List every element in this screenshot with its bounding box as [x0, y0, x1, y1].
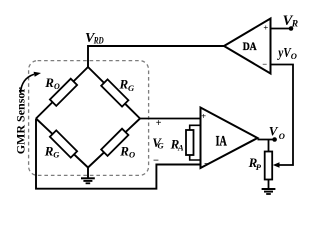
- svg-text:G: G: [158, 141, 165, 151]
- wire: DA - input feedback from potentiometer wiper: [271, 65, 294, 166]
- svg-text:R: R: [44, 144, 54, 159]
- svg-text:P: P: [256, 162, 262, 172]
- wire: bridge bottom to ground: [87, 168, 89, 179]
- wire: bridge top-right edge: [88, 67, 140, 119]
- node label V_RD: [85, 31, 104, 46]
- resistor R_O (bridge bottom-right): [101, 129, 128, 156]
- svg-text:A: A: [177, 143, 184, 153]
- pin + of DA: [263, 22, 268, 32]
- op-amp DA (differential amplifier, points left): [224, 19, 271, 74]
- wire: bridge right node to IA + input: [140, 118, 201, 120]
- potentiometer R_P: [265, 140, 273, 189]
- svg-text:O: O: [291, 51, 297, 61]
- svg-text:O: O: [129, 150, 135, 160]
- resistor R_G (bridge top-right): [101, 79, 128, 106]
- svg-text:+: +: [201, 111, 206, 121]
- resistor R_G (bridge bottom-left): [50, 130, 77, 157]
- node V_O terminal dot: [272, 137, 277, 142]
- label R_P: [248, 155, 262, 172]
- svg-text:R: R: [119, 77, 129, 92]
- svg-text:G: G: [128, 83, 135, 93]
- annotation arrow to sensor: [21, 72, 42, 93]
- label R_G bottom-left: [44, 144, 61, 160]
- svg-text:IA: IA: [216, 133, 227, 149]
- svg-text:O: O: [54, 82, 60, 91]
- label DA: [243, 41, 258, 53]
- label R_O top-left: [44, 75, 60, 91]
- wire: bridge top-left edge: [36, 67, 88, 119]
- node V_R terminal dot: [289, 26, 294, 31]
- label yV_O: [277, 45, 297, 61]
- pin + of IA: [201, 111, 206, 121]
- label + (V_G polarity top): [156, 118, 162, 129]
- svg-text:yV: yV: [277, 45, 292, 60]
- wire: IA output to V_O node: [258, 139, 275, 141]
- svg-text:R: R: [119, 144, 129, 159]
- svg-text:V: V: [269, 124, 279, 139]
- ground (below R_P): [262, 189, 276, 194]
- svg-text:G: G: [53, 150, 60, 160]
- label - (V_G polarity bottom): [153, 155, 159, 166]
- label IA: [216, 133, 227, 149]
- pin - of DA: [262, 59, 267, 69]
- svg-text:GMR Sensor: GMR Sensor: [14, 87, 28, 155]
- label R_A: [170, 137, 184, 153]
- resistor R_O (bridge top-left): [50, 79, 77, 106]
- svg-text:R: R: [291, 20, 298, 30]
- wire: V_RD node from DA output down to bridge top: [88, 46, 224, 67]
- GMR Sensor label (rotated): [14, 87, 28, 155]
- svg-text:−: −: [204, 159, 210, 170]
- svg-text:DA: DA: [243, 41, 258, 53]
- svg-text:+: +: [156, 118, 162, 129]
- node label V_G: [152, 135, 164, 151]
- svg-text:−: −: [153, 155, 159, 166]
- ground (bridge): [81, 178, 95, 183]
- label R_G top-right: [119, 77, 136, 94]
- wire: bridge bottom-left edge: [36, 119, 88, 168]
- pin - of IA: [204, 159, 210, 170]
- svg-text:−: −: [262, 59, 267, 69]
- resistor R_A (IA gain resistor): [186, 125, 201, 160]
- wire: bridge bottom-right edge: [88, 119, 140, 168]
- svg-text:O: O: [279, 131, 285, 141]
- svg-text:R: R: [44, 75, 54, 90]
- svg-text:RD: RD: [93, 36, 104, 46]
- label V_O: [269, 124, 285, 141]
- svg-text:+: +: [263, 22, 268, 32]
- wire: bridge left node down and along bottom to IA - input: [36, 119, 201, 189]
- wire: DA + input to V_R terminal: [271, 28, 292, 30]
- wiper arrowhead into R_P: [273, 162, 280, 168]
- label R_O bottom-right: [119, 144, 135, 160]
- label V_R: [283, 13, 299, 30]
- GMR sensor dashed enclosure: [29, 61, 149, 176]
- op-amp IA (instrumentation amplifier, points right): [201, 108, 258, 169]
